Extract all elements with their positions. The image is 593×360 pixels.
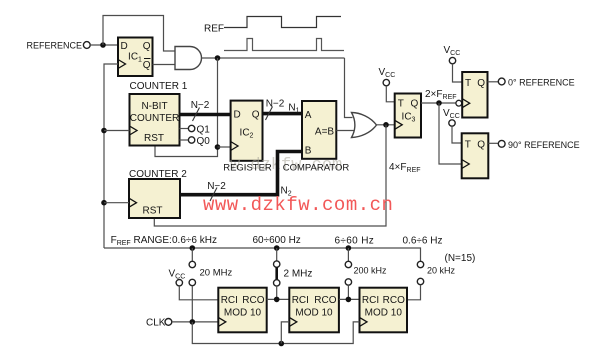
terminal CLK: [165, 319, 172, 326]
svg-text:6÷60 Hz: 6÷60 Hz: [335, 236, 375, 247]
bus COUNTER2 to comparator B, N-2 N2: [180, 152, 302, 195]
wire VCC to RCI1: [179, 286, 218, 300]
svg-text:COMPARATOR: COMPARATOR: [283, 163, 350, 174]
junction on REFERENCE wire: [100, 42, 106, 48]
flip-flop IC1: [118, 38, 153, 77]
junction 200kHz tap: [346, 297, 352, 303]
junction OR output: [383, 122, 389, 128]
tap 200 kHz jumper: [345, 245, 387, 299]
wire VCC to 90deg FF T: [452, 126, 462, 143]
flip-flop 0deg reference: [462, 72, 487, 118]
wire FREF range line: [104, 248, 421, 261]
svg-text:MOD 10: MOD 10: [365, 308, 403, 319]
svg-text:MOD 10: MOD 10: [295, 308, 333, 319]
svg-text:Q: Q: [477, 140, 485, 151]
svg-text:COUNTER: COUNTER: [130, 113, 179, 124]
terminal 90deg reference: [498, 140, 505, 147]
terminal Q0: [188, 137, 194, 143]
wire VCC to IC3 T: [386, 86, 394, 102]
svg-text:0.6÷6 Hz: 0.6÷6 Hz: [403, 236, 443, 247]
svg-text:Q0: Q0: [197, 136, 211, 147]
inverter bubble on 0deg FF clock: [456, 100, 462, 106]
svg-text:T: T: [465, 78, 471, 89]
svg-text:RCO: RCO: [242, 295, 264, 306]
flip-flop 90deg reference: [462, 133, 489, 178]
svg-text:0° REFERENCE: 0° REFERENCE: [508, 78, 575, 88]
wire 90deg FF Q output: [488, 142, 498, 144]
counter MOD10 no.2: [289, 288, 339, 333]
tap 2 MHz jumper closed: [274, 245, 313, 299]
counter MOD10 no.1: [218, 288, 266, 333]
wire AND output down to IC2 clock / COUNTER1 RST: [155, 58, 218, 157]
svg-text:Q1: Q1: [197, 125, 211, 136]
svg-text:RCO: RCO: [314, 295, 336, 306]
svg-text:2 MHz: 2 MHz: [284, 269, 313, 280]
wire 4xFREF to COUNTER2 RST: [154, 125, 386, 226]
svg-text:200 kHz: 200 kHz: [354, 266, 388, 276]
wire to IC2 clock: [218, 146, 231, 148]
bus COUNTER1 to IC2, N-2: [180, 113, 231, 117]
wire feedback REFERENCE to AND top input: [103, 16, 175, 52]
wire clock distribution bottom: [192, 322, 359, 344]
svg-text:N-BIT: N-BIT: [141, 101, 167, 112]
wire OR output to IC3 clock: [377, 124, 395, 126]
junction CLK distribution: [190, 319, 196, 325]
wire IC3 Q output 2xFREF: [421, 102, 456, 104]
register IC2: [231, 101, 263, 161]
counter COUNTER2: [129, 179, 180, 218]
junction 2xFREF: [436, 100, 442, 106]
wire AND output: [202, 57, 345, 59]
svg-text:RCI: RCI: [362, 295, 379, 306]
svg-text:Q: Q: [411, 99, 419, 110]
wire REFERENCE to IC1 D: [90, 44, 118, 46]
junction IC2 clock tap: [215, 144, 221, 150]
flip-flop IC3: [395, 94, 421, 138]
wire stub Q1: [180, 128, 189, 130]
terminal REFERENCE: [83, 42, 90, 49]
junction AND output: [215, 55, 221, 61]
svg-text:(N=15): (N=15): [445, 253, 476, 264]
wire VCC to 0deg FF T: [453, 64, 463, 82]
tap 20 MHz jumper: [189, 245, 232, 322]
terminal 0deg reference: [498, 78, 505, 85]
svg-text:A=B: A=B: [315, 127, 335, 138]
wire CLK to MOD10 no.1 clock: [172, 321, 219, 323]
svg-text:RCO: RCO: [383, 295, 405, 306]
wire MOD10 no.2 clock: [281, 322, 289, 344]
svg-text:RST: RST: [143, 206, 163, 217]
junction COUNTER2 clock: [101, 200, 107, 206]
svg-text:REF: REF: [204, 24, 224, 35]
svg-text:D: D: [234, 110, 241, 121]
svg-text:CLK: CLK: [146, 318, 166, 329]
svg-text:T: T: [465, 140, 471, 151]
tap 20 kHz jumper: [407, 261, 456, 300]
gate OR: [352, 113, 377, 138]
svg-text:MOD 10: MOD 10: [224, 308, 262, 319]
svg-text:N−2: N−2: [207, 181, 226, 192]
svg-text:RST: RST: [144, 133, 164, 144]
wire 0deg FF Q output: [488, 81, 499, 83]
svg-text:B: B: [305, 146, 312, 157]
junction COUNTER1 clock: [101, 128, 107, 134]
wire RCO2 to RCI3: [339, 298, 360, 300]
svg-text:Q: Q: [143, 41, 151, 52]
wire RCO1 to RCI2: [267, 298, 290, 300]
wire COUNTER1 clock: [104, 130, 130, 132]
svg-text:20 kHz: 20 kHz: [427, 266, 456, 276]
svg-text:Q: Q: [252, 110, 260, 121]
svg-text:T: T: [398, 99, 404, 110]
wire comparator output to OR bottom input: [336, 130, 353, 132]
svg-text:A: A: [305, 110, 312, 121]
svg-text:90° REFERENCE: 90° REFERENCE: [508, 140, 580, 150]
svg-text:60÷600 Hz: 60÷600 Hz: [253, 235, 301, 246]
wire stub Q0: [180, 139, 189, 141]
svg-text:N−2: N−2: [266, 99, 285, 110]
svg-text:RCI: RCI: [221, 295, 238, 306]
terminal Q1: [188, 125, 194, 131]
wire COUNTER2 clock: [104, 202, 129, 204]
junction 2MHz tap: [274, 297, 280, 303]
svg-text:20 MHz: 20 MHz: [200, 268, 233, 279]
svg-text:0.6÷6 kHz: 0.6÷6 kHz: [172, 235, 217, 246]
wire 2xFREF down to 90deg FF clock: [439, 103, 462, 164]
gate AND: [175, 47, 202, 70]
svg-text:RCI: RCI: [292, 295, 309, 306]
svg-text:D: D: [121, 41, 128, 52]
svg-text:www.dzkfw.com.cn: www.dzkfw.com.cn: [203, 194, 393, 216]
waveform pulse train: [224, 39, 344, 51]
svg-text:COUNTER 1: COUNTER 1: [130, 81, 188, 92]
svg-text:Q: Q: [143, 60, 151, 71]
counter COUNTER1 N-BIT COUNTER: [130, 94, 180, 146]
comparator A=B: [302, 101, 336, 159]
junction MOD10 no.2 clock: [279, 341, 285, 347]
bus IC2 to comparator A, N-2 N1: [263, 112, 303, 116]
wire IC1 Qbar to AND bottom input: [153, 64, 176, 66]
waveform REF square wave: [224, 17, 341, 28]
svg-text:Q: Q: [477, 78, 485, 89]
svg-text:REFERENCE: REFERENCE: [26, 41, 82, 51]
svg-text:N−2: N−2: [191, 100, 210, 111]
counter MOD10 no.3: [360, 288, 408, 333]
svg-text:REGISTER: REGISTER: [223, 163, 272, 174]
wire AND output to OR top input: [345, 58, 353, 118]
wire IC1 clock: [104, 64, 118, 248]
